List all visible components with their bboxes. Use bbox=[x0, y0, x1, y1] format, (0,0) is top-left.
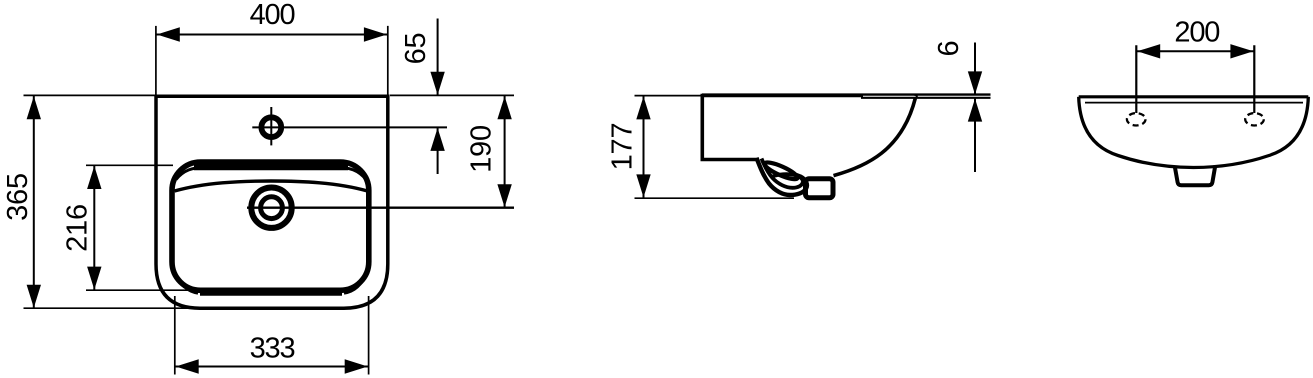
dimension 365 arrow bottom bbox=[27, 285, 41, 308]
drain centreline / ext line to 190 dim bbox=[247, 206, 514, 208]
plan view bowl rim band lower edge right bbox=[336, 167, 366, 179]
dimension 216 arrow bottom bbox=[87, 267, 101, 290]
front view drain outlet bbox=[1175, 166, 1216, 186]
dimension 65 lower arrow line bbox=[437, 128, 439, 174]
dimension 190 arrow bottom bbox=[497, 184, 511, 207]
dimension 216 arrow top bbox=[87, 166, 101, 189]
svg-text:200: 200 bbox=[1174, 17, 1219, 49]
dimension 190 arrow top bbox=[497, 96, 511, 119]
dimension 177 extension line bottom bbox=[635, 197, 795, 199]
dimension 216 extension line bottom bbox=[86, 289, 200, 291]
dimension 6 upper arrow head bbox=[968, 71, 982, 94]
svg-text:365: 365 bbox=[2, 173, 34, 221]
dimension 200 line bbox=[1136, 50, 1254, 52]
plan view inner bowl outline bbox=[172, 162, 369, 290]
siphon trap inner leaf bbox=[763, 159, 799, 182]
drain outlet pipe bbox=[806, 179, 834, 198]
side view back edge vertical bbox=[700, 94, 704, 160]
svg-text:190: 190 bbox=[466, 125, 498, 173]
plan view bowl rim band lower edge left bbox=[176, 167, 206, 179]
drain hole outer circle bbox=[251, 188, 291, 228]
drain hole inner circle bbox=[261, 197, 283, 219]
faucet hole horizontal centreline / ext line to 65 dim bbox=[252, 126, 447, 128]
dimension 6 lower arrow line bbox=[974, 99, 976, 172]
dimension 216 extension line top bbox=[86, 164, 173, 166]
dimension 216 line bbox=[93, 165, 95, 290]
dimension 6 upper arrow line bbox=[974, 43, 976, 95]
dimension 200 arrow right bbox=[1230, 44, 1253, 58]
dimension 400 arrow left bbox=[157, 27, 180, 41]
svg-text:177: 177 bbox=[607, 123, 639, 171]
dimension 333 line bbox=[175, 366, 369, 368]
dimension 177 arrow top bbox=[636, 96, 650, 119]
dimension 200 extension line right bbox=[1253, 45, 1255, 113]
dimension 365 extension line top bbox=[24, 94, 157, 96]
dimension 400 line bbox=[156, 34, 388, 36]
plan view bowl bottom band dip right bbox=[344, 273, 367, 293]
dimension 333 extension line right bbox=[368, 296, 370, 375]
dimension 365 arrow top bbox=[27, 96, 41, 119]
side view rim band filler bbox=[702, 95, 863, 97]
bowl front tip rounding bbox=[914, 95, 917, 99]
faucet hole circle bbox=[261, 117, 281, 137]
dimension 65 lower arrow head bbox=[430, 128, 444, 151]
plan view bowl bottom band dip left bbox=[176, 273, 199, 293]
dimension 65 upper arrow head bbox=[430, 72, 444, 95]
dimension 177 arrow bottom bbox=[636, 174, 650, 197]
siphon trap middle loop bbox=[762, 159, 803, 188]
dimension 400 arrow right bbox=[364, 27, 387, 41]
dimension 200 extension line left bbox=[1135, 45, 1137, 113]
dimension 400 extension line left bbox=[155, 26, 157, 95]
dimension 65 upper arrow line bbox=[437, 19, 439, 95]
plan view bowl bottom band fill line bbox=[200, 292, 342, 296]
faucet hole vertical centreline bbox=[270, 107, 272, 145]
dimension 333 arrow left bbox=[176, 359, 199, 373]
dimension 365 line bbox=[33, 96, 35, 309]
svg-text:6: 6 bbox=[933, 41, 965, 57]
svg-text:400: 400 bbox=[250, 0, 295, 31]
svg-text:65: 65 bbox=[400, 33, 432, 65]
front view top edge bbox=[1079, 95, 1309, 98]
side view bottom edge of fixing flange bbox=[701, 158, 758, 162]
right fixing hole (dashed) bbox=[1245, 113, 1264, 125]
dimension 333 extension line left bbox=[174, 296, 176, 375]
dimension 400 extension line right bbox=[387, 26, 389, 95]
plan view bowl rim band fill line bbox=[194, 164, 348, 171]
dimension 177 extension line top bbox=[635, 95, 703, 97]
left fixing hole (dashed) bbox=[1127, 113, 1146, 125]
dimension 365 extension line bottom bbox=[24, 307, 201, 309]
bowl underside curve bbox=[834, 98, 916, 175]
dimension 333 arrow right bbox=[345, 359, 368, 373]
plan view outer basin outline bbox=[156, 96, 388, 308]
dimension 6 lower arrow head bbox=[968, 99, 982, 122]
dimension 200 arrow left bbox=[1137, 44, 1160, 58]
svg-text:216: 216 bbox=[62, 204, 94, 252]
side view rim lower thin line to 6 dim bbox=[861, 97, 991, 99]
front view rim lower line bbox=[1085, 102, 1303, 104]
extension line top edge to 190/65 dim bbox=[390, 94, 514, 96]
plan view bowl inner rim curve bbox=[175, 181, 368, 191]
dimension 190 line bbox=[504, 96, 506, 208]
siphon trap outer hook bbox=[757, 158, 807, 195]
svg-text:333: 333 bbox=[250, 332, 295, 364]
dimension 177 line bbox=[643, 96, 645, 198]
side view rim top surface line bbox=[702, 93, 991, 95]
front view bowl outline bbox=[1079, 97, 1309, 168]
